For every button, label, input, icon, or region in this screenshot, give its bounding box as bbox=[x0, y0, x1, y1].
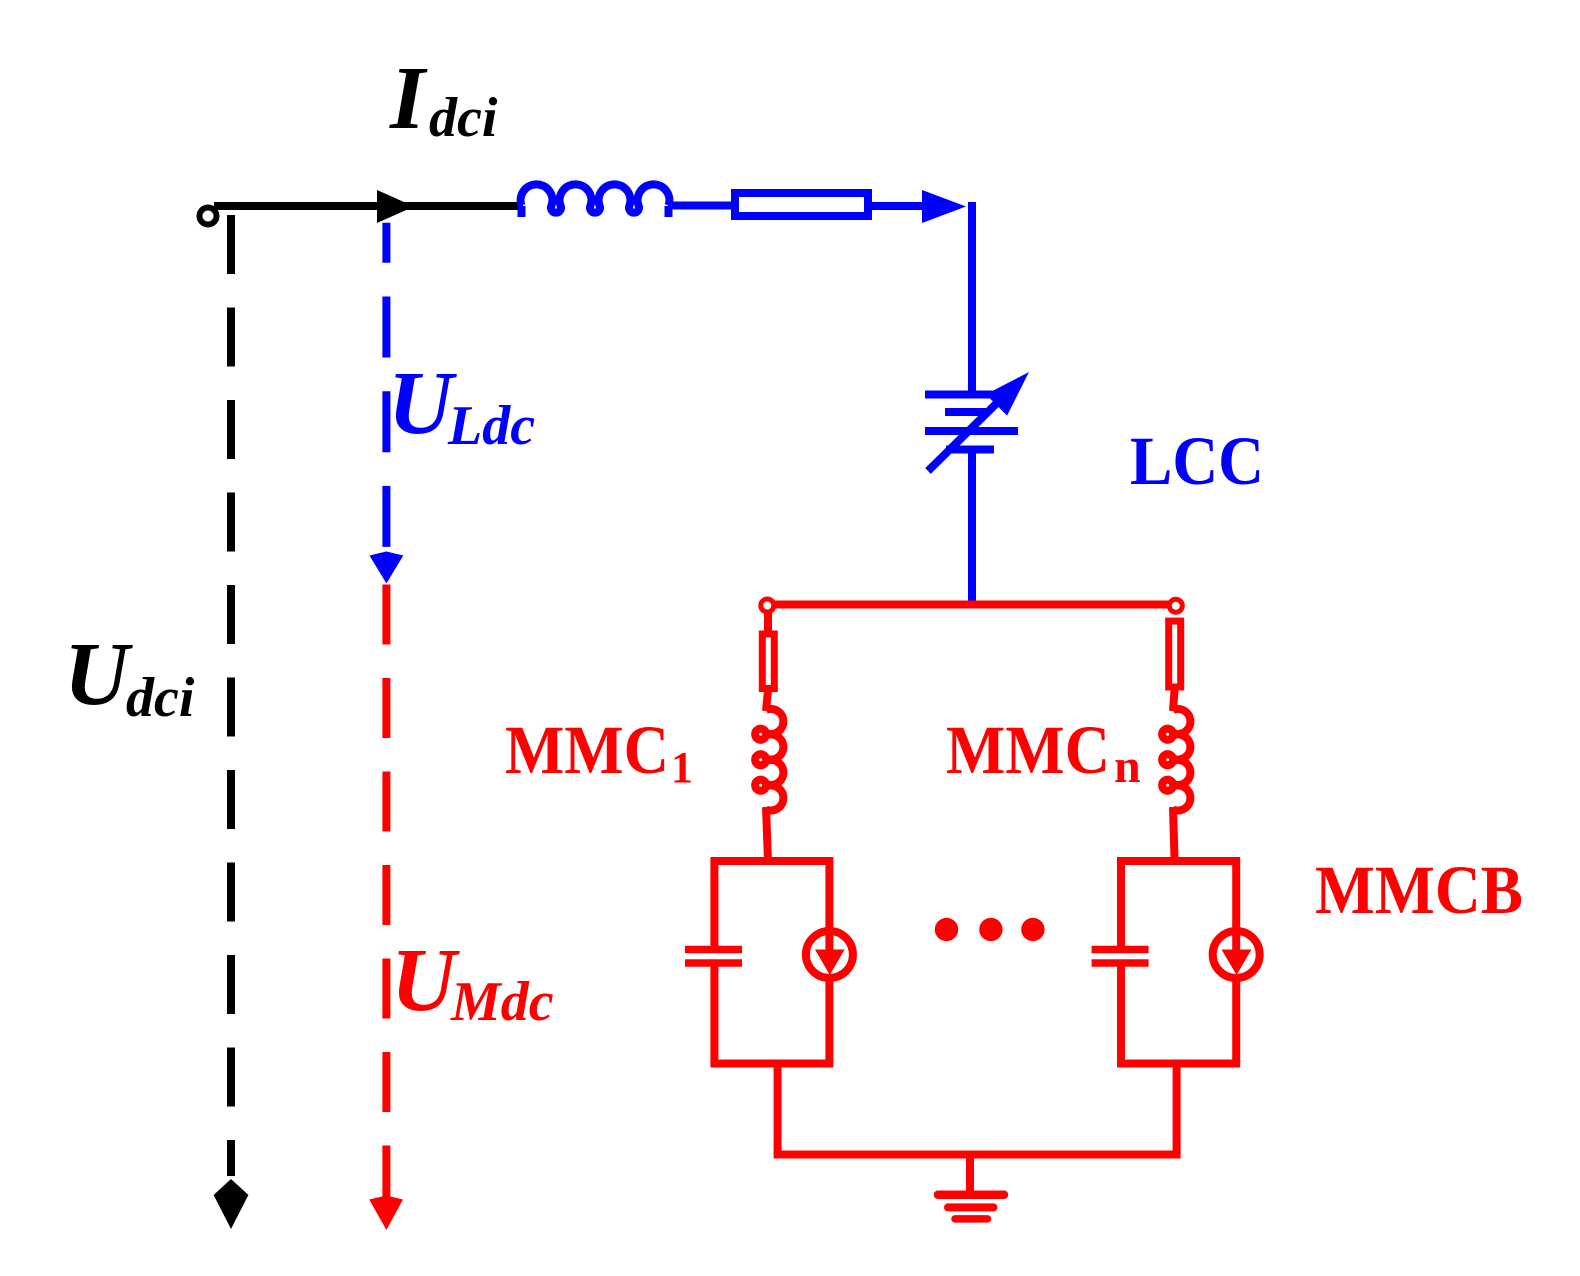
svg-text:U: U bbox=[391, 931, 460, 1030]
svg-text:I: I bbox=[389, 49, 428, 148]
svg-text:dci: dci bbox=[126, 667, 195, 729]
svg-text:n: n bbox=[1114, 740, 1141, 793]
svg-text:Ldc: Ldc bbox=[447, 395, 535, 457]
svg-text:U: U bbox=[64, 625, 133, 724]
svg-text:dci: dci bbox=[429, 87, 498, 149]
svg-text:U: U bbox=[388, 354, 457, 453]
svg-text:LCC: LCC bbox=[1130, 423, 1264, 499]
svg-text:MMC: MMC bbox=[946, 712, 1110, 788]
svg-text:MMC: MMC bbox=[505, 712, 669, 788]
svg-text:1: 1 bbox=[671, 743, 693, 792]
svg-text:MMCB: MMCB bbox=[1315, 852, 1523, 928]
svg-text:Mdc: Mdc bbox=[450, 971, 554, 1033]
